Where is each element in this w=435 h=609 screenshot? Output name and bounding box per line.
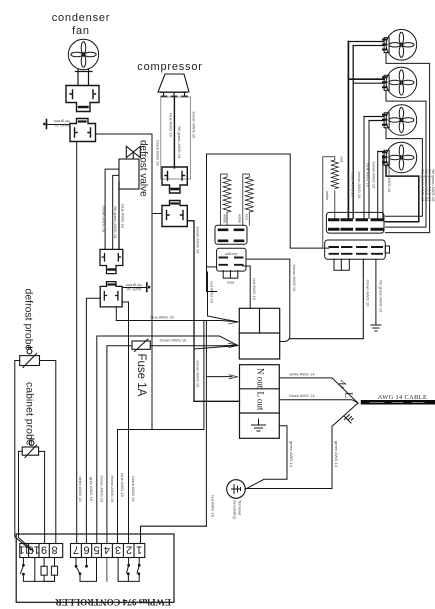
- wire fan to plug: [76, 70, 93, 86]
- label brown AWG 16: [160, 337, 188, 342]
- svg-text:6: 6: [83, 544, 89, 556]
- svg-text:Yel green AWG 16: Yel green AWG 16: [378, 280, 383, 313]
- fan bus 2: [352, 46, 354, 219]
- svg-text:white AWG 14: white AWG 14: [289, 371, 315, 376]
- label brown AWG 16: [196, 227, 201, 389]
- connector J2 socket (compressor): [162, 201, 187, 227]
- fan3 ground loop: [386, 128, 423, 217]
- evaporator fan M3: [383, 67, 417, 98]
- junction box: [239, 308, 279, 359]
- ground symbol in box: [252, 419, 266, 431]
- fan1 wires: [348, 42, 384, 46]
- wire terminal3 riser: [118, 430, 204, 544]
- svg-text:brown AWG 16: brown AWG 16: [160, 337, 188, 342]
- labels compressor wires (rotated 180): [156, 112, 197, 167]
- svg-text:brown AWG 16: brown AWG 16: [372, 162, 377, 190]
- svg-text:brown AWG 16: brown AWG 16: [196, 227, 201, 255]
- wire red jumper wire diag: [208, 272, 238, 322]
- svg-text:Jumper: Jumper: [224, 252, 238, 257]
- line under 4: [106, 558, 108, 582]
- ground symbol on diagonal: [344, 415, 353, 424]
- controller box: [16, 534, 174, 602]
- labels white red: [222, 214, 249, 224]
- svg-text:blue AWG 18: blue AWG 18: [121, 204, 126, 228]
- wire defrost probe left: [15, 361, 31, 551]
- svg-text:red AWG 16: red AWG 16: [210, 281, 215, 303]
- svg-text:8: 8: [51, 544, 57, 556]
- relay contact 7-6-5: [75, 558, 96, 582]
- svg-text:green AWG 14: green AWG 14: [289, 441, 294, 468]
- wire socket to terminal T2: [122, 287, 146, 289]
- connector P3 plug (defrost valve): [100, 249, 123, 273]
- wire jumper to junction box top: [243, 266, 251, 308]
- svg-text:blue AWG 16: blue AWG 16: [351, 173, 356, 197]
- wire Yel green to ground: [375, 259, 377, 325]
- wire cabinet probe left: [19, 451, 34, 551]
- wire green AWG 14 (left): [245, 438, 287, 489]
- svg-text:blue AWG 16: blue AWG 16: [169, 113, 174, 137]
- fan bus 4: [368, 121, 370, 219]
- label Fuse 1A (rotated): [135, 354, 147, 397]
- svg-text:AWG 14 CABLE: AWG 14 CABLE: [378, 394, 427, 401]
- label defrost probe: [23, 289, 35, 351]
- wire L bus bottom: [152, 429, 204, 431]
- svg-text:L out: L out: [256, 392, 266, 411]
- svg-text:4: 4: [104, 544, 110, 556]
- svg-text:red: red: [245, 214, 250, 220]
- svg-text:Terminal: Terminal: [238, 500, 243, 515]
- condenser fan motor M1: [68, 39, 98, 69]
- svg-text:condenser: condenser: [52, 12, 111, 24]
- fan4 ground loop: [386, 165, 419, 222]
- wire socket to terminal T1 (Yel green AWG 16): [48, 124, 71, 126]
- wire blue AWG 16: [116, 321, 237, 322]
- connector C1: [326, 212, 384, 233]
- wire valve 3 (blue AWG 18): [118, 182, 120, 250]
- ring terminal T1: [46, 120, 48, 129]
- svg-text:red AWG 16: red AWG 16: [252, 278, 257, 300]
- svg-text:fan: fan: [72, 25, 90, 37]
- labels fan bus: [351, 160, 393, 199]
- connector C2: [325, 240, 390, 259]
- svg-text:black AWG 16: black AWG 16: [131, 476, 136, 502]
- svg-text:L: L: [343, 392, 354, 398]
- wire cabinet probe right to terminal 9: [39, 451, 45, 543]
- defrost probe RT1: [20, 348, 40, 368]
- svg-text:N out: N out: [256, 368, 266, 389]
- wire fuse to arrow (brown AWG 16): [150, 344, 237, 346]
- relay contact 11-10: [21, 558, 35, 582]
- heater box outline wire: [207, 154, 291, 292]
- svg-text:blue AWG 16: blue AWG 16: [150, 314, 174, 319]
- svg-text:brown AWG 18: brown AWG 18: [102, 206, 107, 234]
- svg-text:compressor: compressor: [137, 61, 202, 73]
- defrost valve body: [119, 159, 139, 189]
- svg-text:white AWG 16: white AWG 16: [78, 476, 83, 502]
- label cabinet probe: [24, 382, 36, 446]
- svg-text:Fuse 1A: Fuse 1A: [135, 354, 147, 397]
- wire socket down to terminal 7 (white AWG 16): [76, 142, 78, 544]
- compressor body: [158, 74, 189, 92]
- wire socket right down (brown AWG 16): [187, 221, 194, 401]
- svg-text:red AWG 16: red AWG 16: [211, 495, 216, 517]
- wire socket bottom to blue wire: [115, 307, 117, 321]
- wire socket left to terminal 6 (grey AWG 16): [86, 298, 100, 543]
- compressor pins: [164, 93, 185, 97]
- connector J1 socket (condenser fan): [70, 119, 96, 142]
- connector C3 heater: [215, 225, 247, 244]
- coil under 9: [41, 558, 47, 582]
- svg-text:defrost probe: defrost probe: [23, 289, 35, 351]
- evaporator fan M5: [383, 142, 417, 173]
- label Yel green AWG 16 (rotated 180): [54, 119, 71, 128]
- jumper wires below C2: [334, 259, 349, 270]
- svg-text:1: 1: [136, 544, 142, 556]
- svg-text:defrost valve: defrost valve: [138, 140, 149, 197]
- svg-text:3: 3: [115, 544, 121, 556]
- svg-text:blue AWG 18: blue AWG 18: [120, 473, 125, 497]
- wire defrost probe right to terminal 8: [40, 361, 56, 544]
- arrow into junction box 2: [229, 343, 239, 347]
- svg-text:brown AWG 16: brown AWG 16: [192, 112, 197, 140]
- wire to terminal1 v2: [205, 322, 207, 527]
- labels valve wires: [102, 204, 126, 239]
- svg-text:AWG 16: AWG 16: [126, 287, 142, 292]
- svg-text:cabinet probe: cabinet probe: [24, 382, 36, 446]
- fan bus 6: [382, 156, 384, 219]
- wire green AWG 14 (right): [245, 403, 358, 489]
- svg-text:AWG 16: AWG 16: [54, 123, 70, 128]
- wire valve 1 (brown AWG 18): [105, 169, 119, 249]
- defrost valve symbol V1: [126, 146, 140, 159]
- wire black AWG 14: [279, 400, 358, 403]
- label N: [336, 378, 349, 390]
- connector C4 jumper: [207, 248, 247, 271]
- heater coil R2: [243, 174, 253, 225]
- svg-text:white: white: [238, 214, 243, 224]
- arrow into N out: [229, 375, 238, 379]
- wire terminal1 riser (red AWG 16): [141, 526, 207, 543]
- connector P1 plug (condenser fan): [66, 86, 99, 112]
- svg-text:brown AWG 16: brown AWG 16: [292, 265, 297, 293]
- wire blue AWG 16 (compressor center): [173, 97, 175, 168]
- labels red white: [325, 157, 345, 202]
- svg-text:Yel green AWG 16: Yel green AWG 16: [431, 169, 435, 202]
- AWG 14 CABLE: [363, 400, 435, 405]
- svg-text:black AWG 16: black AWG 16: [156, 140, 161, 166]
- wire ground cell to green wire: [279, 426, 287, 439]
- svg-text:black AWG 14: black AWG 14: [289, 393, 315, 398]
- fan4 wires: [378, 152, 384, 156]
- svg-text:Yel green AWG 18: Yel green AWG 18: [113, 206, 118, 239]
- svg-text:10: 10: [28, 544, 40, 556]
- svg-text:EWPlus 974 CONTROLLER: EWPlus 974 CONTROLLER: [55, 597, 171, 607]
- wire N feed vertical v1: [203, 321, 205, 430]
- fan2 wires: [348, 78, 384, 80]
- svg-text:2: 2: [126, 544, 132, 556]
- fan2 ground loop: [386, 90, 427, 227]
- grounding terminal: [227, 480, 246, 499]
- svg-text:5: 5: [93, 544, 99, 556]
- coil under 8: [35, 558, 58, 582]
- relay output box N out / L out: [240, 365, 280, 439]
- label blue AWG 16: [150, 314, 174, 319]
- label condenser fan: [52, 12, 111, 37]
- connector J3 socket (defrost valve): [100, 282, 122, 307]
- svg-text:white: white: [325, 191, 330, 201]
- evaporator fan M4: [383, 105, 417, 136]
- wire socket right to compressor feed bus: [96, 133, 153, 135]
- svg-text:Grounding: Grounding: [233, 500, 238, 519]
- wire terminal5 riser: [97, 336, 238, 544]
- jumper wire U: [223, 271, 238, 279]
- ring terminal T2: [146, 283, 148, 292]
- label red AWG 16: [210, 281, 215, 303]
- fuse F1: [132, 339, 150, 352]
- heater coil R1: [221, 174, 231, 225]
- svg-text:green AWG 14: green AWG 14: [334, 441, 339, 468]
- svg-text:Yel green AWG 16: Yel green AWG 16: [177, 126, 182, 159]
- wire socket left to L bus: [152, 213, 162, 215]
- svg-text:brown AWG 16: brown AWG 16: [365, 280, 370, 308]
- terminal block 1-7: [71, 544, 145, 558]
- wire white AWG 14: [279, 378, 358, 403]
- wire L bus vertical x=152: [151, 134, 153, 430]
- wire socket right down to terminal 2 (black AWG 16): [122, 302, 128, 544]
- svg-text:grey AWG 16: grey AWG 16: [89, 477, 94, 501]
- svg-text:7: 7: [73, 544, 79, 556]
- relay contacts 3-2-1: [118, 558, 140, 582]
- fan bus 3: [363, 117, 365, 219]
- fan bus 5: [377, 152, 379, 219]
- label L: [343, 392, 354, 398]
- wire jumper right to brown riser: [246, 259, 290, 341]
- ground symbol G1: [371, 325, 381, 331]
- svg-text:brown AWG 16: brown AWG 16: [357, 172, 362, 200]
- wire arrow2 fork: [194, 346, 238, 350]
- fan1 ground loop: [386, 53, 430, 233]
- svg-text:blue: blue: [226, 280, 234, 285]
- svg-text:white: white: [222, 214, 227, 224]
- wire valve 2 (Yel green AWG 18): [113, 175, 119, 249]
- terminal block 8-11: [20, 544, 63, 558]
- compressor wire box: [161, 97, 191, 179]
- svg-text:9: 9: [41, 544, 47, 556]
- cabinet probe RT2: [22, 439, 38, 458]
- heater coil R3: [323, 157, 339, 247]
- labels terminal wires: [78, 473, 216, 517]
- connector P2 plug (compressor): [162, 167, 187, 193]
- labels fan grounds: [421, 169, 435, 202]
- fan3 wires: [364, 117, 384, 121]
- wire N out feed: [206, 376, 232, 378]
- wire terminal4 riser to fuse: [107, 346, 132, 544]
- label compressor: [137, 61, 202, 73]
- svg-text:brown AWG 16: brown AWG 16: [100, 476, 105, 504]
- evaporator fan M2: [383, 30, 417, 61]
- label Yel green AWG 16 (rotated 180): [126, 283, 143, 292]
- svg-text:blue AWG 16: blue AWG 16: [366, 163, 371, 187]
- wire L out feed: [194, 400, 240, 402]
- arrow into junction box 1: [229, 320, 239, 324]
- label defrost valve (rotated): [138, 140, 149, 197]
- fan bus 1: [347, 42, 349, 219]
- svg-text:brown AWG 16: brown AWG 16: [196, 361, 201, 389]
- svg-text:red: red: [340, 157, 345, 163]
- wire brown AWG 16 down-left: [290, 259, 364, 338]
- svg-text:brown AWG 16: brown AWG 16: [110, 476, 115, 504]
